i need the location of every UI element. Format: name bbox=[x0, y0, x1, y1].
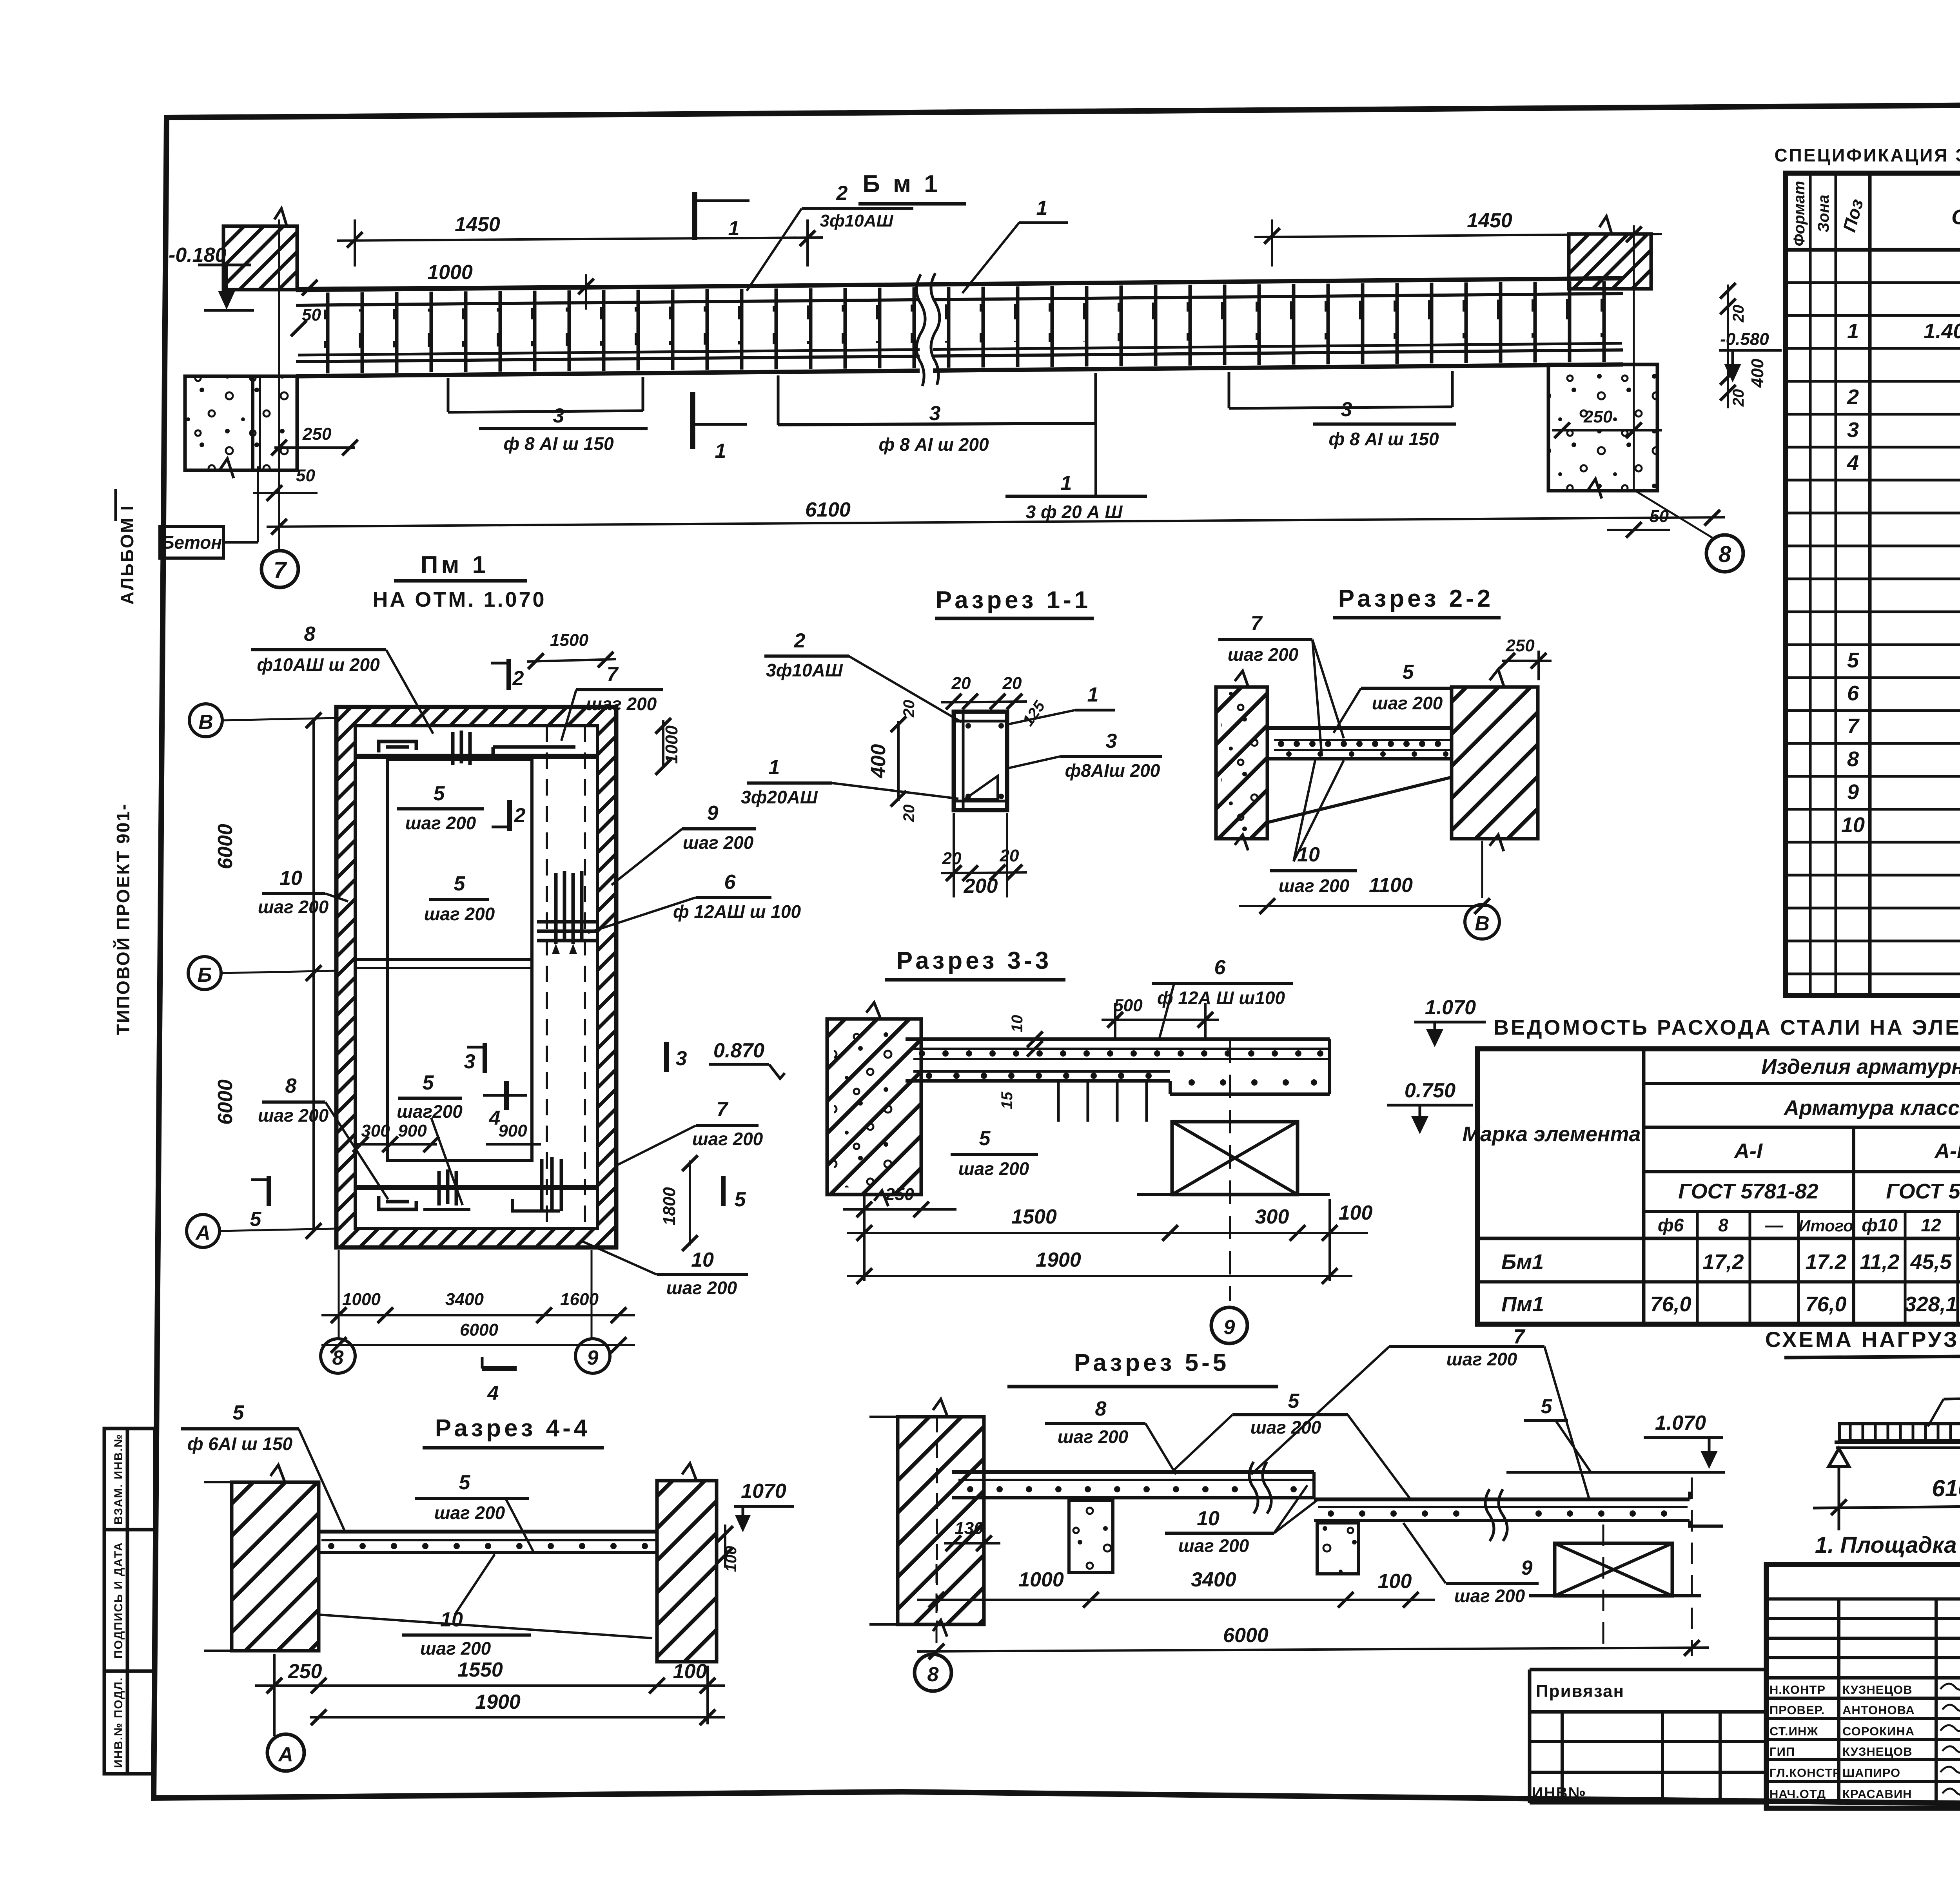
svg-text:1070: 1070 bbox=[741, 1480, 786, 1503]
svg-text:Бм1: Бм1 bbox=[1501, 1250, 1544, 1274]
svg-text:250: 250 bbox=[288, 1660, 322, 1683]
svg-text:Обозначение: Обозначение bbox=[1951, 205, 1960, 229]
dim chain 20 400 20 right bbox=[1727, 285, 1729, 408]
slab right thick end bbox=[1169, 1081, 1172, 1094]
dim 200 bottom bbox=[941, 872, 1027, 873]
svg-text:20: 20 bbox=[900, 805, 918, 823]
svg-text:3ф20АШ: 3ф20АШ bbox=[741, 787, 818, 807]
svg-text:ф 12А Ш ш100: ф 12А Ш ш100 bbox=[1157, 988, 1285, 1008]
svg-text:1: 1 bbox=[769, 756, 780, 779]
load strip bbox=[1839, 1424, 1960, 1441]
section 4-4 slab bbox=[319, 1530, 657, 1534]
svg-text:17.2: 17.2 bbox=[1805, 1250, 1846, 1274]
section 3-3 slab bbox=[906, 1037, 1330, 1041]
svg-text:4: 4 bbox=[1847, 451, 1859, 475]
svg-text:2: 2 bbox=[512, 667, 524, 690]
right end step bbox=[1690, 1492, 1723, 1526]
axis В circle bbox=[1481, 841, 1483, 898]
svg-text:А-Ш: А-Ш bbox=[1934, 1139, 1960, 1163]
svg-text:шаг 200: шаг 200 bbox=[420, 1638, 491, 1659]
svg-text:7: 7 bbox=[1251, 612, 1263, 635]
svg-text:Разрез 4-4: Разрез 4-4 bbox=[435, 1415, 591, 1442]
beam top bar dashes bbox=[318, 299, 1615, 348]
leader diagonals bbox=[319, 1615, 652, 1638]
svg-text:900: 900 bbox=[498, 1121, 527, 1140]
svg-text:2: 2 bbox=[514, 804, 526, 827]
svg-text:ГОСТ 5781-82: ГОСТ 5781-82 bbox=[1678, 1180, 1818, 1203]
plan Пм1 outer wall bbox=[336, 707, 616, 1247]
svg-text:Арматура класса: Арматура класса bbox=[1783, 1096, 1960, 1120]
section 2-2 slab bbox=[1267, 726, 1452, 730]
svg-text:ф 6АI ш 150: ф 6АI ш 150 bbox=[187, 1434, 293, 1454]
signatures squiggles bbox=[1940, 1680, 1960, 1795]
svg-text:3 ф 20 А Ш: 3 ф 20 А Ш bbox=[1026, 502, 1123, 522]
plan mid divider bbox=[355, 958, 532, 961]
svg-text:НА ОТМ. 1.070: НА ОТМ. 1.070 bbox=[372, 588, 546, 611]
grid circle 8 bbox=[915, 1654, 951, 1691]
svg-text:1: 1 bbox=[1087, 683, 1099, 706]
plan dashed hidden lines right strip bbox=[546, 726, 548, 1229]
wall left hatched bbox=[223, 226, 297, 290]
svg-text:6: 6 bbox=[724, 871, 736, 894]
svg-text:76,0: 76,0 bbox=[1805, 1293, 1846, 1316]
axis line 8 bbox=[1633, 225, 1635, 490]
footing right concrete bbox=[1548, 364, 1657, 491]
svg-text:Пм1: Пм1 bbox=[1501, 1293, 1544, 1316]
svg-text:3400: 3400 bbox=[445, 1290, 484, 1309]
plan rebar bundle bottom bbox=[439, 1169, 456, 1206]
section 3-3 X column bbox=[1172, 1122, 1298, 1195]
grid circle Б bbox=[188, 957, 221, 990]
svg-text:9: 9 bbox=[587, 1347, 599, 1369]
svg-text:1450: 1450 bbox=[455, 213, 500, 236]
beam Бм1 body chords bbox=[296, 278, 1623, 376]
axis 9 circle bbox=[1229, 1039, 1231, 1301]
svg-text:0.870: 0.870 bbox=[713, 1039, 764, 1062]
svg-text:9: 9 bbox=[1521, 1557, 1533, 1579]
svg-text:8: 8 bbox=[304, 623, 316, 645]
svg-text:В: В bbox=[198, 711, 213, 734]
svg-text:1550: 1550 bbox=[457, 1659, 503, 1681]
Бетон label bbox=[160, 527, 223, 558]
svg-text:5: 5 bbox=[250, 1208, 262, 1231]
title block outer bbox=[1766, 1564, 1960, 1808]
svg-text:1900: 1900 bbox=[1036, 1249, 1081, 1271]
svg-text:0.750: 0.750 bbox=[1405, 1079, 1455, 1102]
svg-text:А: А bbox=[195, 1222, 211, 1244]
plan top rebar thick line bbox=[354, 754, 597, 759]
svg-text:250: 250 bbox=[885, 1185, 914, 1204]
svg-text:ф10АШ ш 200: ф10АШ ш 200 bbox=[257, 654, 380, 675]
svg-text:9: 9 bbox=[1847, 780, 1859, 804]
spec table frame bbox=[1786, 173, 1960, 995]
section mark 1 top bbox=[692, 192, 697, 240]
svg-text:6000: 6000 bbox=[460, 1320, 498, 1340]
svg-text:76,0: 76,0 bbox=[1650, 1293, 1691, 1316]
svg-text:250: 250 bbox=[302, 424, 332, 444]
svg-text:8: 8 bbox=[927, 1663, 939, 1686]
svg-text:50: 50 bbox=[296, 466, 315, 485]
svg-text:шаг 200: шаг 200 bbox=[258, 1105, 329, 1126]
svg-text:3: 3 bbox=[1341, 398, 1352, 421]
svg-text:ИНВ№: ИНВ№ bbox=[1532, 1784, 1586, 1802]
svg-text:7: 7 bbox=[1514, 1325, 1526, 1348]
svg-text:3: 3 bbox=[1106, 730, 1117, 752]
svg-text:100: 100 bbox=[1378, 1570, 1412, 1593]
svg-text:шаг 200: шаг 200 bbox=[1058, 1427, 1129, 1447]
svg-text:—: — bbox=[1765, 1215, 1784, 1235]
svg-text:А: А bbox=[278, 1743, 293, 1766]
section 1-1 box bbox=[954, 712, 1007, 810]
break in upper slab bbox=[1249, 1462, 1271, 1514]
svg-text:ГИП: ГИП bbox=[1769, 1745, 1795, 1758]
svg-text:КРАСАВИН: КРАСАВИН bbox=[1842, 1787, 1912, 1801]
svg-text:3ф10АШ: 3ф10АШ bbox=[820, 211, 893, 230]
grid circle 9 bottom bbox=[575, 1339, 610, 1373]
svg-text:10: 10 bbox=[1009, 1015, 1026, 1033]
svg-text:ИНВ.№ ПОДЛ.: ИНВ.№ ПОДЛ. bbox=[112, 1677, 125, 1768]
svg-text:1. Площадка ПМ1 разработана дл: 1. Площадка ПМ1 разработана для t°н=-30°… bbox=[1815, 1532, 1960, 1558]
svg-text:Н.КОНТР: Н.КОНТР bbox=[1769, 1683, 1826, 1697]
svg-text:1900: 1900 bbox=[475, 1691, 521, 1713]
svg-text:шаг 200: шаг 200 bbox=[434, 1503, 505, 1523]
svg-text:шаг200: шаг200 bbox=[397, 1101, 463, 1122]
sidebar stamp boxes bbox=[104, 1428, 155, 1774]
level line 1.070 right bbox=[1506, 1471, 1725, 1474]
svg-text:Привязан: Привязан bbox=[1536, 1682, 1624, 1701]
grid circle 8 bbox=[1706, 535, 1743, 572]
dim 1800 right rot bbox=[689, 1160, 691, 1245]
svg-text:7: 7 bbox=[607, 663, 619, 686]
plan corner hooks bottom bbox=[379, 1196, 416, 1209]
section 5-5 lower slab bbox=[1314, 1497, 1690, 1501]
svg-text:10: 10 bbox=[691, 1249, 714, 1271]
svg-text:8: 8 bbox=[1847, 747, 1859, 771]
section mark 4 bottom bbox=[482, 1366, 517, 1371]
svg-text:1000: 1000 bbox=[1018, 1568, 1064, 1591]
grid circle 7 bbox=[261, 551, 298, 587]
svg-text:1: 1 bbox=[715, 440, 726, 462]
svg-text:Итого: Итого bbox=[1798, 1216, 1853, 1235]
svg-text:1100: 1100 bbox=[1369, 874, 1413, 897]
svg-text:10: 10 bbox=[440, 1608, 463, 1631]
axis stubs bottom bbox=[338, 1250, 340, 1338]
svg-text:5: 5 bbox=[1541, 1395, 1553, 1418]
plan corner hooks top left bbox=[379, 741, 416, 752]
svg-text:300: 300 bbox=[1255, 1206, 1289, 1228]
svg-text:АНТОНОВА: АНТОНОВА bbox=[1842, 1703, 1915, 1717]
svg-text:20: 20 bbox=[1730, 389, 1747, 407]
svg-text:5: 5 bbox=[233, 1401, 245, 1424]
svg-text:шаг 200: шаг 200 bbox=[586, 694, 657, 714]
svg-text:8: 8 bbox=[332, 1347, 344, 1369]
svg-text:шаг 200: шаг 200 bbox=[405, 813, 476, 833]
svg-text:5: 5 bbox=[454, 872, 466, 895]
svg-text:6: 6 bbox=[1214, 956, 1226, 979]
svg-text:3: 3 bbox=[553, 404, 564, 427]
svg-text:250: 250 bbox=[1505, 636, 1535, 655]
svg-text:1: 1 bbox=[1061, 472, 1072, 495]
section mark 5 right bbox=[721, 1176, 726, 1206]
svg-text:9: 9 bbox=[1224, 1316, 1235, 1339]
X column right bbox=[1555, 1543, 1672, 1596]
svg-text:5: 5 bbox=[1847, 649, 1859, 672]
svg-text:шаг 200: шаг 200 bbox=[1178, 1535, 1249, 1556]
svg-text:20: 20 bbox=[951, 674, 971, 693]
svg-text:1.070: 1.070 bbox=[1425, 996, 1476, 1019]
svg-text:130: 130 bbox=[955, 1519, 984, 1538]
plan rebar bundle lower right bbox=[542, 1157, 561, 1211]
footing left concrete bbox=[185, 376, 297, 470]
svg-text:5: 5 bbox=[979, 1127, 991, 1150]
svg-text:1: 1 bbox=[1036, 197, 1048, 219]
svg-text:8: 8 bbox=[1095, 1398, 1107, 1420]
grid circle В bbox=[189, 704, 222, 737]
svg-text:328,1: 328,1 bbox=[1904, 1293, 1957, 1316]
svg-text:шаг 200: шаг 200 bbox=[683, 832, 754, 853]
beam stirrups bbox=[303, 281, 1621, 373]
section 5-5 upper slab bbox=[952, 1470, 1314, 1474]
left dim 6000x2 bbox=[312, 720, 315, 1231]
section 2-2 haunch bbox=[1269, 778, 1450, 822]
svg-text:СХЕМА НАГРУЗКИ НА БМ1: СХЕМА НАГРУЗКИ НА БМ1 bbox=[1765, 1327, 1960, 1352]
svg-text:Б: Б bbox=[198, 964, 212, 986]
plan rebar bundle top bbox=[453, 731, 470, 765]
svg-text:6100: 6100 bbox=[805, 499, 851, 521]
svg-text:Зона: Зона bbox=[1815, 195, 1832, 233]
svg-text:СОРОКИНА: СОРОКИНА bbox=[1842, 1724, 1915, 1738]
svg-text:ШАПИРО: ШАПИРО bbox=[1842, 1766, 1900, 1780]
schema beam line bbox=[1835, 1441, 1960, 1444]
svg-text:1000: 1000 bbox=[662, 725, 681, 764]
mini table Привязан bbox=[1530, 1670, 1766, 1803]
svg-text:17,2: 17,2 bbox=[1702, 1250, 1744, 1274]
svg-text:КУЗНЕЦОВ: КУЗНЕЦОВ bbox=[1842, 1683, 1913, 1697]
svg-text:5: 5 bbox=[459, 1471, 471, 1494]
svg-text:500: 500 bbox=[1114, 996, 1143, 1015]
section 2-2 left pier bbox=[1216, 687, 1267, 839]
section mark 5 left bbox=[267, 1176, 271, 1206]
svg-text:2: 2 bbox=[836, 182, 848, 205]
svg-text:15: 15 bbox=[998, 1091, 1016, 1109]
svg-text:2: 2 bbox=[1847, 385, 1859, 409]
svg-text:6100: 6100 bbox=[1932, 1475, 1960, 1501]
svg-text:11,2: 11,2 bbox=[1860, 1250, 1899, 1274]
svg-text:20: 20 bbox=[900, 700, 918, 718]
svg-text:400: 400 bbox=[1748, 359, 1767, 388]
section mark 3 right bbox=[664, 1042, 669, 1072]
stirrup ticks below slab bbox=[1057, 1081, 1060, 1122]
svg-text:В: В bbox=[1475, 912, 1490, 935]
svg-text:6000: 6000 bbox=[214, 1079, 237, 1125]
svg-text:250: 250 bbox=[1583, 407, 1613, 426]
svg-text:3: 3 bbox=[676, 1047, 687, 1070]
svg-text:Бетон: Бетон bbox=[162, 532, 222, 553]
svg-text:8: 8 bbox=[285, 1075, 297, 1097]
grid circle 8 bottom bbox=[321, 1339, 355, 1373]
svg-text:1500: 1500 bbox=[1011, 1206, 1057, 1228]
svg-text:6000: 6000 bbox=[214, 824, 237, 869]
svg-text:ф8АIш 200: ф8АIш 200 bbox=[1065, 760, 1160, 781]
svg-text:10: 10 bbox=[1841, 813, 1865, 837]
svg-text:1.400-15 В.1.520-04: 1.400-15 В.1.520-04 bbox=[1924, 319, 1960, 343]
svg-text:шаг 200: шаг 200 bbox=[424, 904, 495, 924]
svg-text:10: 10 bbox=[279, 867, 302, 890]
plan wall hatch bands bbox=[336, 707, 616, 1247]
stamp rows bbox=[1769, 1683, 1915, 1801]
svg-text:4: 4 bbox=[487, 1382, 499, 1405]
svg-text:1: 1 bbox=[728, 217, 740, 240]
step between slabs bbox=[1312, 1472, 1316, 1499]
dim 400 left of box bbox=[897, 721, 900, 801]
svg-text:20: 20 bbox=[942, 849, 962, 868]
svg-text:Разрез 5-5: Разрез 5-5 bbox=[1074, 1349, 1230, 1376]
svg-text:АЛЬБОМ I: АЛЬБОМ I bbox=[117, 504, 137, 605]
svg-text:3400: 3400 bbox=[1191, 1568, 1236, 1591]
beam break mark bbox=[920, 287, 933, 373]
section 2-2 right wall bbox=[1452, 687, 1538, 839]
svg-text:7: 7 bbox=[1847, 714, 1860, 738]
svg-text:5: 5 bbox=[434, 782, 445, 805]
svg-text:1000: 1000 bbox=[427, 261, 473, 284]
svg-text:1500: 1500 bbox=[550, 631, 588, 650]
svg-text:2: 2 bbox=[794, 629, 806, 652]
axis line 7 bbox=[278, 219, 280, 549]
plan inner slab rect bbox=[388, 760, 532, 1160]
wall right hatched bbox=[1569, 234, 1651, 289]
svg-text:КУЗНЕЦОВ: КУЗНЕЦОВ bbox=[1842, 1745, 1913, 1758]
svg-text:Разрез 3-3: Разрез 3-3 bbox=[897, 947, 1052, 974]
svg-text:шаг 200: шаг 200 bbox=[1279, 876, 1350, 896]
svg-text:1600: 1600 bbox=[560, 1290, 599, 1309]
bracket 3 Ф8АIш200 mid bbox=[778, 423, 1096, 425]
svg-text:НАЧ.ОТД: НАЧ.ОТД bbox=[1769, 1787, 1826, 1801]
svg-text:ВЕДОМОСТЬ РАСХОДА СТАЛИ НА ЭЛЕ: ВЕДОМОСТЬ РАСХОДА СТАЛИ НА ЭЛЕМЕНТ. КГ bbox=[1494, 1016, 1960, 1039]
svg-text:8: 8 bbox=[1718, 1215, 1728, 1235]
svg-text:3: 3 bbox=[464, 1050, 475, 1073]
svg-text:Разрез 2-2: Разрез 2-2 bbox=[1338, 585, 1494, 612]
svg-text:Б м 1: Б м 1 bbox=[862, 170, 940, 198]
svg-text:900: 900 bbox=[398, 1121, 427, 1140]
svg-text:ПРОВЕР.: ПРОВЕР. bbox=[1769, 1703, 1825, 1717]
svg-text:5: 5 bbox=[1403, 661, 1414, 683]
svg-text:ГОСТ 5781-82: ГОСТ 5781-82 bbox=[1886, 1180, 1960, 1203]
svg-text:Формат: Формат bbox=[1791, 181, 1808, 247]
svg-text:ГЛ.КОНСТР: ГЛ.КОНСТР bbox=[1769, 1766, 1841, 1780]
bracket 3 Ф8АIш150 left bbox=[448, 411, 643, 412]
svg-text:3: 3 bbox=[1847, 418, 1859, 442]
grid circle А bbox=[187, 1215, 220, 1247]
svg-text:1: 1 bbox=[1847, 319, 1859, 343]
svg-text:5: 5 bbox=[735, 1188, 746, 1211]
svg-text:шаг 200: шаг 200 bbox=[666, 1278, 737, 1298]
svg-text:20: 20 bbox=[1730, 305, 1747, 323]
svg-text:5: 5 bbox=[423, 1071, 434, 1094]
svg-text:шаг 200: шаг 200 bbox=[1228, 644, 1299, 665]
svg-text:ф 12АШ ш 100: ф 12АШ ш 100 bbox=[673, 901, 801, 922]
svg-text:1000: 1000 bbox=[342, 1290, 381, 1309]
section 5-5 left wall bbox=[898, 1417, 984, 1624]
dim 1000 right rot bbox=[662, 720, 664, 768]
pier 2 bbox=[1317, 1523, 1359, 1574]
svg-text:шаг 200: шаг 200 bbox=[958, 1158, 1029, 1179]
section 4-4 right wall bbox=[657, 1481, 717, 1662]
svg-text:Марка элемента: Марка элемента bbox=[1462, 1122, 1641, 1146]
svg-text:Пм 1: Пм 1 bbox=[421, 551, 489, 578]
svg-text:1800: 1800 bbox=[660, 1187, 679, 1225]
break in lower slab bbox=[1485, 1489, 1507, 1541]
svg-text:СТ.ИНЖ: СТ.ИНЖ bbox=[1769, 1724, 1818, 1738]
steel table frame bbox=[1477, 1049, 1960, 1324]
svg-text:5: 5 bbox=[1288, 1390, 1300, 1412]
svg-text:шаг 200: шаг 200 bbox=[1446, 1349, 1517, 1369]
svg-text:6: 6 bbox=[1847, 682, 1859, 705]
svg-text:ТИПОВОЙ ПРОЕКТ 901-: ТИПОВОЙ ПРОЕКТ 901- bbox=[113, 803, 133, 1035]
section mark 1 bottom bbox=[690, 392, 695, 449]
svg-text:-0.180: -0.180 bbox=[169, 244, 227, 266]
svg-text:1.070: 1.070 bbox=[1655, 1412, 1706, 1434]
svg-text:СПЕЦИФИКАЦИЯ ЭЛЕМЕНТОВ МОНОЛИТ: СПЕЦИФИКАЦИЯ ЭЛЕМЕНТОВ МОНОЛИТНОЙ КОНСТР… bbox=[1775, 145, 1960, 165]
section mark 3 left bbox=[483, 1043, 487, 1073]
svg-text:Изделия арматурные: Изделия арматурные bbox=[1761, 1055, 1960, 1079]
dim line 1100 bbox=[1239, 905, 1490, 907]
support left bbox=[1829, 1448, 1849, 1467]
svg-text:ф6: ф6 bbox=[1658, 1215, 1684, 1235]
svg-text:3ф10АШ: 3ф10АШ bbox=[766, 660, 843, 680]
svg-text:ПОДПИСЬ И ДАТА: ПОДПИСЬ И ДАТА bbox=[112, 1542, 125, 1659]
svg-text:шаг 200: шаг 200 bbox=[1372, 693, 1443, 713]
svg-text:50: 50 bbox=[1650, 507, 1669, 526]
svg-text:ВЗАМ. ИНВ.№: ВЗАМ. ИНВ.№ bbox=[112, 1434, 125, 1525]
svg-text:100: 100 bbox=[1339, 1202, 1373, 1224]
svg-text:А-I: А-I bbox=[1733, 1139, 1763, 1163]
svg-text:200: 200 bbox=[964, 875, 998, 897]
svg-text:шаг 200: шаг 200 bbox=[258, 897, 329, 917]
svg-text:шаг 200: шаг 200 bbox=[1454, 1586, 1525, 1606]
svg-text:10: 10 bbox=[1197, 1507, 1220, 1530]
svg-text:45,5: 45,5 bbox=[1910, 1250, 1952, 1274]
svg-text:ф 8 АI ш 200: ф 8 АI ш 200 bbox=[878, 434, 989, 455]
plan rebar bundle upper right bbox=[537, 871, 597, 944]
svg-text:20: 20 bbox=[1002, 674, 1022, 693]
section mark 2 upper bbox=[506, 659, 511, 690]
svg-text:7: 7 bbox=[717, 1098, 729, 1121]
svg-text:7: 7 bbox=[274, 557, 287, 583]
pier 1 bbox=[1069, 1500, 1113, 1572]
wall core below beam left bbox=[251, 376, 254, 470]
svg-text:3: 3 bbox=[929, 402, 941, 425]
svg-text:ф 8 АI ш 150: ф 8 АI ш 150 bbox=[503, 433, 613, 454]
section mark 4 bbox=[504, 1081, 509, 1110]
svg-text:ф 8 АI ш 150: ф 8 АI ш 150 bbox=[1328, 429, 1439, 449]
svg-text:8: 8 bbox=[1719, 542, 1731, 567]
svg-text:100: 100 bbox=[673, 1660, 707, 1683]
svg-text:20: 20 bbox=[1000, 846, 1019, 865]
svg-text:Разрез 1-1: Разрез 1-1 bbox=[936, 587, 1091, 614]
svg-text:шаг 200: шаг 200 bbox=[692, 1129, 763, 1149]
svg-text:ф10: ф10 bbox=[1862, 1215, 1898, 1235]
svg-text:400: 400 bbox=[867, 744, 890, 779]
svg-text:6000: 6000 bbox=[1223, 1624, 1269, 1647]
grid circle А bbox=[267, 1734, 304, 1771]
svg-text:1450: 1450 bbox=[1467, 209, 1512, 232]
svg-text:12: 12 bbox=[1921, 1215, 1941, 1235]
section 3-3 left wall bbox=[827, 1019, 921, 1195]
section mark 2 lower bbox=[507, 800, 512, 831]
bracket 3 Ф8АIш150 right bbox=[1229, 407, 1452, 408]
section 4-4 left wall bbox=[232, 1482, 319, 1651]
svg-text:9: 9 bbox=[707, 802, 719, 825]
